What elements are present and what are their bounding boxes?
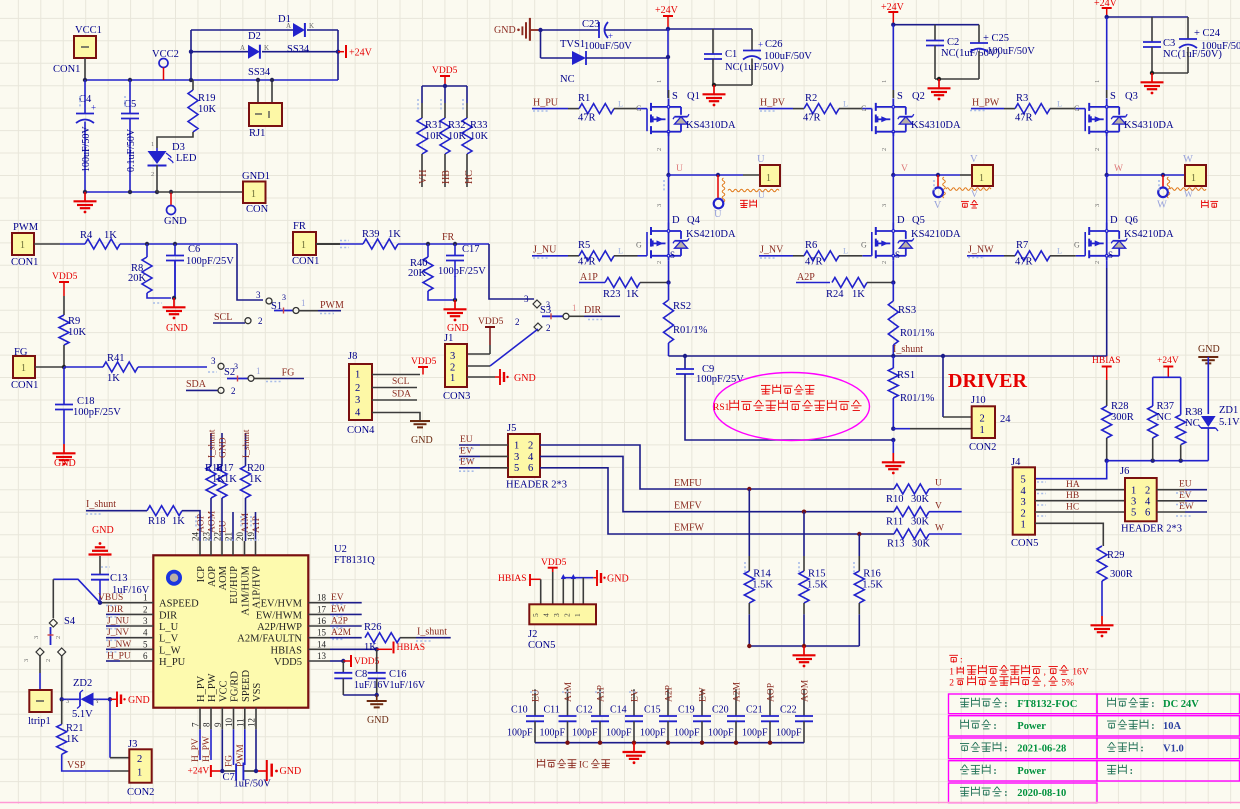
svg-text:1: 1 (656, 80, 663, 83)
svg-text:4: 4 (1021, 486, 1027, 497)
svg-text:24: 24 (1000, 414, 1011, 425)
svg-text:4: 4 (542, 613, 551, 617)
svg-text:2: 2 (143, 604, 148, 614)
svg-text:HBIAS: HBIAS (270, 645, 302, 656)
svg-text:A: A (286, 22, 291, 30)
svg-text:EU: EU (460, 435, 473, 445)
svg-text:1K: 1K (364, 642, 377, 653)
svg-text:5: 5 (143, 639, 148, 649)
svg-text:1K: 1K (224, 474, 237, 485)
svg-text:CON1: CON1 (53, 64, 80, 75)
svg-text:,: , (1044, 666, 1046, 676)
svg-text:Q4: Q4 (687, 215, 701, 226)
svg-text:GND: GND (514, 373, 536, 384)
svg-text:2: 2 (949, 678, 954, 688)
svg-text::: : (993, 766, 996, 777)
svg-text:CON5: CON5 (1011, 538, 1038, 549)
svg-text:1: 1 (251, 189, 256, 200)
svg-text:,: , (1044, 677, 1046, 687)
svg-text:1uF/50V: 1uF/50V (234, 779, 272, 790)
svg-text:2: 2 (355, 383, 360, 394)
svg-text:100pF/25V: 100pF/25V (186, 256, 234, 267)
svg-text:3: 3 (282, 293, 286, 302)
svg-text:KS4310DA: KS4310DA (911, 120, 961, 131)
svg-text:G: G (1074, 104, 1080, 113)
svg-text:1: 1 (1021, 520, 1026, 531)
svg-text:6: 6 (143, 651, 148, 661)
svg-text:100pF/25V: 100pF/25V (696, 374, 744, 385)
svg-text:100pF: 100pF (674, 728, 700, 739)
svg-text:1: 1 (1191, 173, 1196, 184)
svg-text::: : (1151, 721, 1154, 732)
svg-text::: : (1004, 788, 1007, 799)
svg-text:U: U (935, 479, 942, 489)
svg-text:R29: R29 (1107, 550, 1125, 561)
svg-text:1: 1 (766, 173, 771, 184)
svg-text:1: 1 (137, 768, 142, 779)
svg-text:10: 10 (224, 718, 234, 728)
svg-text:V: V (901, 164, 908, 174)
svg-text:3: 3 (66, 698, 69, 705)
svg-text:2: 2 (231, 386, 236, 396)
svg-text:100uF/50V: 100uF/50V (81, 126, 92, 172)
svg-text:3: 3 (656, 204, 663, 207)
svg-text:U: U (714, 209, 722, 220)
svg-text:CON2: CON2 (127, 787, 154, 798)
svg-text:A: A (240, 44, 245, 52)
svg-text:D2: D2 (248, 31, 261, 42)
svg-text:VSS: VSS (252, 683, 263, 702)
svg-text:C3: C3 (1163, 38, 1175, 49)
svg-text:U: U (676, 164, 683, 174)
svg-text:EW: EW (331, 605, 346, 615)
svg-text:J_NV: J_NV (760, 245, 784, 256)
svg-text:CON1: CON1 (11, 380, 38, 391)
svg-text:R14: R14 (753, 569, 771, 580)
svg-text:2: 2 (1145, 486, 1150, 497)
svg-text:R4: R4 (80, 230, 93, 241)
svg-text:100pF: 100pF (572, 728, 598, 739)
svg-text:IC: IC (579, 761, 589, 771)
svg-text:C20: C20 (712, 705, 729, 716)
svg-text:47R: 47R (1015, 257, 1033, 268)
svg-text:SCL: SCL (214, 312, 232, 323)
svg-text:L: L (618, 99, 623, 109)
svg-text:47R: 47R (578, 112, 596, 123)
svg-text:3: 3 (355, 395, 360, 406)
svg-text::: : (1130, 766, 1133, 777)
svg-text:2: 2 (1094, 148, 1101, 151)
svg-text::: : (960, 656, 963, 666)
svg-text:1K: 1K (107, 373, 120, 384)
svg-text:4: 4 (1145, 497, 1151, 508)
svg-text:I_shunt: I_shunt (417, 627, 447, 638)
svg-text:100pF/25V: 100pF/25V (438, 266, 486, 277)
svg-text:DIR: DIR (584, 305, 602, 316)
svg-text:1K: 1K (626, 289, 639, 300)
svg-text:R18: R18 (148, 516, 166, 527)
svg-text:+: + (608, 31, 613, 41)
svg-text:RS1: RS1 (713, 403, 730, 413)
svg-text:EV: EV (460, 446, 473, 456)
svg-text:H_PU: H_PU (159, 657, 186, 668)
svg-text:V: V (970, 154, 978, 165)
svg-text:5.1V: 5.1V (72, 709, 93, 720)
svg-text:GND: GND (607, 574, 629, 585)
svg-text:K: K (264, 44, 269, 52)
svg-text:U2: U2 (334, 544, 347, 555)
svg-text:C13: C13 (110, 573, 128, 584)
svg-text:10K: 10K (425, 131, 444, 142)
svg-text:S: S (670, 250, 675, 260)
svg-text:GND: GND (219, 437, 229, 458)
svg-text:R10: R10 (886, 494, 904, 505)
svg-text:G: G (636, 241, 642, 250)
svg-text:SCL: SCL (392, 377, 410, 387)
svg-text:J5: J5 (507, 423, 516, 434)
svg-text:C2: C2 (947, 37, 959, 48)
svg-text:W: W (1114, 164, 1123, 174)
svg-text:47R: 47R (805, 257, 823, 268)
svg-text:PWM: PWM (13, 222, 39, 233)
svg-text:30K: 30K (911, 494, 930, 505)
svg-text:R11: R11 (886, 517, 903, 528)
svg-text:J_NW: J_NW (107, 640, 131, 650)
svg-text::: : (1004, 743, 1007, 754)
svg-text:CON3: CON3 (443, 391, 470, 402)
svg-text:2: 2 (55, 636, 62, 639)
svg-text:GND: GND (367, 715, 389, 726)
svg-text:R31: R31 (425, 120, 443, 131)
svg-text:2: 2 (656, 261, 663, 264)
svg-text:100uF/50V: 100uF/50V (764, 51, 812, 62)
svg-text:EW: EW (1179, 502, 1194, 512)
svg-text:AOP: AOP (767, 683, 777, 702)
svg-text:W: W (1184, 190, 1193, 200)
svg-text:15: 15 (317, 628, 327, 638)
svg-text::: : (1151, 699, 1154, 710)
svg-text:+24V: +24V (655, 5, 679, 16)
svg-text:C5: C5 (124, 99, 136, 110)
svg-text:S4: S4 (64, 616, 76, 627)
svg-text:L: L (618, 246, 623, 256)
svg-text:CON2: CON2 (969, 442, 996, 453)
svg-text:FT8131Q: FT8131Q (334, 555, 375, 566)
svg-text:R32: R32 (448, 120, 466, 131)
svg-text:4: 4 (143, 628, 148, 638)
svg-text:1K: 1K (388, 229, 401, 240)
svg-text:+24V: +24V (1157, 356, 1179, 366)
svg-text:HB: HB (1066, 491, 1079, 501)
svg-text:H_PW: H_PW (972, 97, 1000, 108)
svg-text:HB: HB (441, 170, 452, 184)
svg-text:3: 3 (211, 356, 216, 366)
svg-text:3: 3 (881, 204, 888, 207)
svg-text:VBUS: VBUS (98, 593, 123, 603)
svg-text:5: 5 (514, 463, 519, 474)
svg-text:5.1V: 5.1V (1219, 417, 1240, 428)
svg-text:R17: R17 (216, 463, 234, 474)
svg-text:1: 1 (949, 667, 954, 677)
svg-text:HEADER 2*3: HEADER 2*3 (506, 480, 567, 491)
svg-text:HBIAS: HBIAS (397, 643, 426, 653)
svg-text:R9: R9 (68, 316, 80, 327)
svg-text:300R: 300R (1111, 412, 1134, 423)
svg-text:R15: R15 (808, 569, 826, 580)
svg-text:VCC2: VCC2 (152, 49, 179, 60)
svg-text:HBIAS: HBIAS (1092, 356, 1121, 366)
svg-text:W: W (1183, 154, 1193, 165)
svg-text:16: 16 (317, 616, 327, 626)
svg-text:R13: R13 (887, 539, 905, 550)
svg-text:Power: Power (1017, 721, 1046, 732)
svg-text:H_PV: H_PV (196, 675, 207, 702)
svg-text:2021-06-28: 2021-06-28 (1017, 743, 1066, 754)
svg-text:H_PW: H_PW (202, 736, 212, 762)
svg-text:K: K (309, 22, 314, 30)
svg-text:300R: 300R (1110, 569, 1133, 580)
svg-text:17: 17 (317, 604, 327, 614)
svg-text:GND: GND (92, 525, 114, 536)
svg-text:R01/1%: R01/1% (900, 393, 935, 404)
svg-text:HA: HA (1066, 480, 1080, 490)
svg-text:FG: FG (282, 368, 295, 379)
svg-text:3: 3 (514, 452, 519, 463)
svg-text:3: 3 (1131, 497, 1136, 508)
svg-text:5: 5 (1021, 475, 1026, 486)
svg-text:C26: C26 (765, 39, 783, 50)
svg-text:EW/HWM: EW/HWM (256, 610, 303, 621)
svg-text:ICP: ICP (196, 566, 207, 583)
svg-text:+24V: +24V (188, 767, 210, 777)
svg-text:VSP: VSP (67, 760, 86, 771)
svg-text:R19: R19 (198, 93, 216, 104)
svg-text:3: 3 (143, 616, 148, 626)
svg-text:16V: 16V (1072, 667, 1089, 677)
svg-text:GND: GND (54, 458, 76, 469)
svg-text:FG/RD: FG/RD (230, 671, 241, 702)
svg-text::: : (1004, 699, 1007, 710)
svg-text:2: 2 (656, 148, 663, 151)
svg-text:SDA: SDA (186, 379, 207, 390)
svg-text:FR: FR (442, 232, 455, 243)
svg-text:3: 3 (1094, 204, 1101, 207)
svg-text:2: 2 (528, 441, 533, 452)
svg-text:20K: 20K (128, 273, 147, 284)
svg-text:VCC: VCC (218, 680, 229, 702)
svg-text:G: G (861, 104, 867, 113)
svg-text:EU/HUP: EU/HUP (229, 566, 240, 604)
svg-text:14: 14 (317, 639, 327, 649)
svg-text:VDD5: VDD5 (411, 357, 437, 367)
svg-text:L_V: L_V (159, 634, 179, 645)
svg-text:10K: 10K (448, 131, 467, 142)
svg-text:R16: R16 (863, 569, 881, 580)
svg-text:KS4210DA: KS4210DA (911, 229, 961, 240)
svg-text:SPEED: SPEED (241, 669, 252, 702)
svg-text:V: V (971, 190, 978, 200)
svg-text:CON1: CON1 (292, 256, 319, 267)
svg-text:R38: R38 (1185, 407, 1203, 418)
svg-text:2: 2 (258, 316, 263, 326)
svg-text:GND: GND (280, 766, 302, 777)
svg-text:V1.0: V1.0 (1163, 743, 1184, 754)
svg-text:3: 3 (23, 659, 30, 662)
svg-text:SDA: SDA (392, 390, 411, 400)
svg-text:47R: 47R (803, 112, 821, 123)
svg-text:G: G (861, 241, 867, 250)
svg-text:R24: R24 (826, 289, 844, 300)
svg-text:VDD5: VDD5 (478, 317, 504, 327)
svg-text:J_NW: J_NW (968, 245, 994, 256)
svg-text:D: D (1110, 215, 1118, 226)
svg-text:6: 6 (528, 463, 533, 474)
svg-text:EMFU: EMFU (674, 478, 703, 489)
svg-text:C18: C18 (77, 396, 95, 407)
svg-text:100pF: 100pF (640, 728, 666, 739)
svg-text:R28: R28 (1111, 401, 1129, 412)
svg-text:4: 4 (355, 408, 361, 419)
svg-text:1: 1 (1094, 80, 1101, 83)
svg-text:Q1: Q1 (687, 91, 700, 102)
svg-text:J10: J10 (971, 395, 986, 406)
svg-text:A2M: A2M (733, 681, 743, 702)
svg-text:J1: J1 (444, 333, 453, 344)
svg-text:0.1uF/50V: 0.1uF/50V (126, 128, 137, 172)
svg-text:GND: GND (164, 216, 187, 227)
svg-text:L: L (1057, 246, 1062, 256)
svg-text:3: 3 (1021, 497, 1026, 508)
svg-text:H_PV: H_PV (191, 738, 201, 762)
svg-text:SS34: SS34 (287, 44, 310, 55)
svg-text:I_shunt: I_shunt (893, 344, 923, 355)
svg-text:1: 1 (450, 373, 455, 384)
svg-text:Q3: Q3 (1125, 91, 1138, 102)
svg-text:NC(1uF/50V): NC(1uF/50V) (725, 62, 784, 73)
svg-text:J_NU: J_NU (533, 245, 557, 256)
svg-text:47R: 47R (578, 257, 596, 268)
svg-text:J6: J6 (1120, 466, 1129, 477)
svg-text:GND1: GND1 (242, 171, 270, 182)
svg-text:U: U (758, 191, 765, 201)
svg-text:EU: EU (532, 689, 542, 702)
svg-text:S: S (895, 250, 900, 260)
svg-text:C1: C1 (725, 49, 737, 60)
svg-text:1uF/16V1uF/16V: 1uF/16V1uF/16V (354, 680, 426, 691)
svg-text:H_PU: H_PU (533, 97, 559, 108)
svg-text:C19: C19 (678, 705, 695, 716)
svg-text:ltrip1: ltrip1 (28, 716, 51, 727)
svg-text:100pF: 100pF (606, 728, 632, 739)
svg-text:GND: GND (1198, 344, 1220, 355)
svg-text:1: 1 (881, 80, 888, 83)
svg-text:+24V: +24V (349, 48, 373, 59)
svg-text:AOM: AOM (801, 679, 811, 702)
svg-text:Q2: Q2 (912, 91, 925, 102)
svg-text:R6: R6 (805, 240, 817, 251)
svg-text:HC: HC (464, 170, 475, 184)
svg-text:HBIAS: HBIAS (498, 574, 527, 584)
svg-text:EV: EV (331, 593, 344, 603)
svg-text:3: 3 (450, 351, 455, 362)
svg-text:S: S (1110, 91, 1116, 102)
svg-text:AOM: AOM (218, 565, 229, 590)
svg-text:G: G (1074, 241, 1080, 250)
svg-text:A2M: A2M (331, 628, 352, 638)
svg-text::: : (1140, 743, 1143, 754)
svg-text:100pF: 100pF (507, 728, 533, 739)
svg-text:V: V (935, 501, 942, 511)
svg-text:V: V (934, 200, 942, 211)
svg-text:J_NV: J_NV (107, 628, 129, 638)
svg-text:J8: J8 (348, 351, 357, 362)
svg-text:L_U: L_U (159, 622, 179, 633)
svg-text:DIR: DIR (107, 605, 124, 615)
svg-text:1: 1 (301, 240, 306, 251)
svg-text:1: 1 (1131, 486, 1136, 497)
svg-text:A1P/HVP: A1P/HVP (252, 566, 263, 609)
svg-text:R20: R20 (247, 463, 265, 474)
svg-text:R41: R41 (107, 353, 125, 364)
svg-text:2: 2 (151, 171, 154, 178)
svg-text:4: 4 (528, 452, 534, 463)
svg-text:1K: 1K (172, 516, 185, 527)
svg-text:1: 1 (514, 441, 519, 452)
svg-text:2: 2 (881, 148, 888, 151)
svg-text:KS4210DA: KS4210DA (1124, 229, 1174, 240)
svg-text:EU: EU (1179, 480, 1192, 490)
svg-text:FG: FG (225, 755, 235, 767)
svg-text:KS4310DA: KS4310DA (1124, 120, 1174, 131)
svg-text:H_PU: H_PU (107, 652, 131, 662)
svg-text:ZD2: ZD2 (73, 678, 92, 689)
svg-text:C10: C10 (511, 705, 528, 716)
svg-text:C8: C8 (355, 669, 367, 680)
svg-text:>: > (1195, 407, 1199, 415)
svg-text:LED: LED (176, 153, 197, 164)
svg-text:100uF/50: 100uF/50 (1201, 41, 1240, 52)
svg-text:5: 5 (1131, 508, 1136, 519)
svg-text:G: G (636, 104, 642, 113)
svg-text:C12: C12 (576, 705, 593, 716)
svg-text:C15: C15 (644, 705, 661, 716)
svg-text:2: 2 (1094, 261, 1101, 264)
svg-text:3: 3 (546, 300, 550, 309)
svg-text:2: 2 (45, 659, 52, 662)
svg-text:DIR: DIR (159, 610, 177, 621)
svg-text:7: 7 (191, 722, 201, 727)
svg-text:100pF: 100pF (742, 728, 768, 739)
svg-text:VDD5: VDD5 (354, 657, 380, 667)
svg-text:SS34: SS34 (248, 67, 271, 78)
svg-text:EU: EU (219, 520, 229, 533)
svg-text:A2P: A2P (665, 685, 675, 702)
svg-text:100uF/50V: 100uF/50V (987, 46, 1035, 57)
svg-text:GND: GND (411, 435, 433, 446)
svg-text:100pF: 100pF (708, 728, 734, 739)
svg-text:1K: 1K (66, 734, 79, 745)
svg-text:Y: Y (95, 698, 100, 705)
svg-text:C17: C17 (462, 244, 480, 255)
svg-text:C6: C6 (188, 244, 200, 255)
svg-text:1: 1 (301, 298, 306, 308)
svg-text:S: S (672, 91, 678, 102)
svg-text:D: D (897, 215, 905, 226)
svg-text:I_shunt: I_shunt (208, 429, 218, 458)
svg-text:2: 2 (137, 754, 142, 765)
svg-text:1: 1 (979, 173, 984, 184)
svg-text:GND: GND (494, 25, 516, 36)
